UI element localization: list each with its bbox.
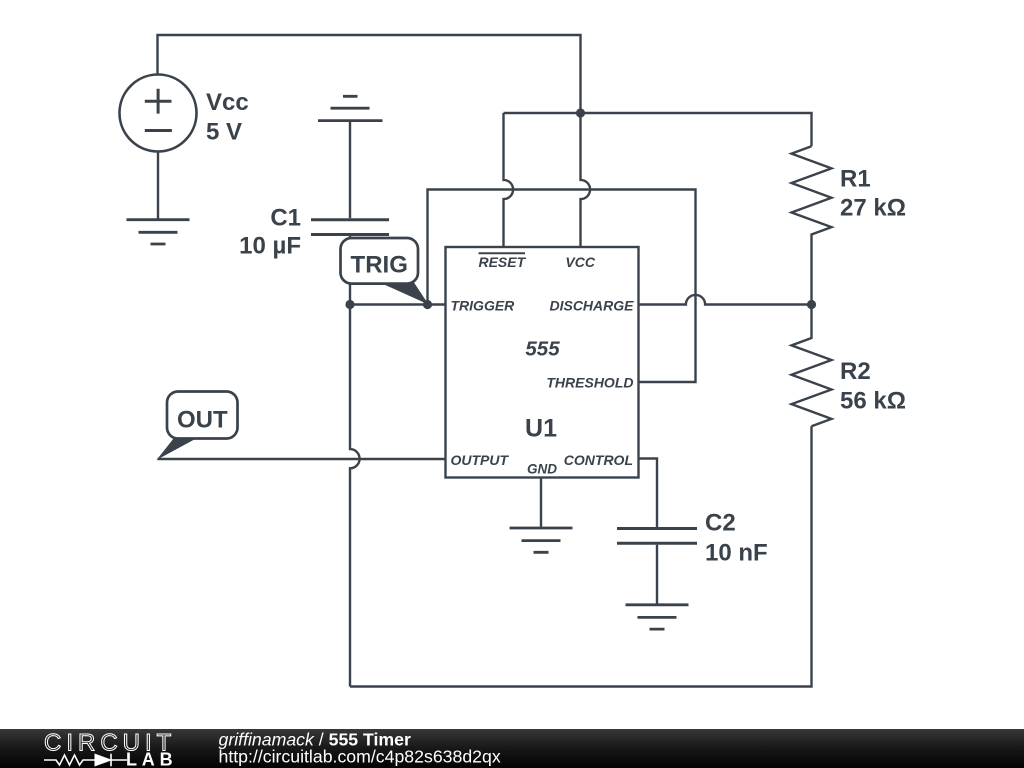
ground under C2: [626, 605, 689, 629]
svg-text:10 µF: 10 µF: [239, 233, 301, 260]
svg-text:C1: C1: [270, 204, 301, 231]
node TRIG left junction: [345, 300, 354, 309]
resistor R2 zigzag: [792, 305, 832, 427]
ground under voltage source: [127, 220, 190, 244]
flag TRIG bubble: [341, 238, 429, 305]
ground under GND pin: [510, 528, 573, 552]
wire Vcc bottom to ground: [157, 152, 159, 220]
wire RESET pin riser (hop over trigger wire): [504, 113, 514, 247]
svg-text:10 nF: 10 nF: [705, 539, 768, 566]
svg-text:27 kΩ: 27 kΩ: [840, 194, 906, 221]
svg-text:GND: GND: [527, 462, 557, 477]
svg-text:OUT: OUT: [177, 406, 228, 433]
resistor R1 zigzag: [792, 146, 832, 304]
node VCC junction: [576, 108, 585, 117]
svg-text:VCC: VCC: [565, 254, 595, 270]
svg-text:OUTPUT: OUTPUT: [451, 452, 510, 468]
wire TRIGGER to THRESHOLD: [428, 190, 696, 383]
wire U1 GND pin to ground: [540, 478, 542, 529]
svg-text:DISCHARGE: DISCHARGE: [549, 298, 634, 314]
svg-text:5 V: 5 V: [206, 118, 242, 145]
svg-text:C2: C2: [705, 509, 736, 536]
wire TRIG node down loop (hop over output wire): [350, 305, 360, 687]
footer logo squiggle resistor and diode: [44, 754, 127, 766]
svg-text:THRESHOLD: THRESHOLD: [546, 375, 633, 391]
svg-text:http://circuitlab.com/c4p82s63: http://circuitlab.com/c4p82s638d2qx: [219, 746, 501, 766]
voltage source V1 Vcc circle: [120, 75, 197, 152]
capacitor C1 plates: [311, 220, 389, 235]
RESET overline: [479, 252, 526, 254]
wire DISCHARGE to R1/R2 junction (hop over threshold wire): [639, 295, 812, 305]
node TRIGGER junction: [423, 300, 432, 309]
capacitor C2 plates: [617, 529, 697, 544]
wire Vcc top to VCC rail: [158, 35, 581, 113]
svg-text:U1: U1: [525, 414, 557, 442]
wire C1 ground to top plate: [349, 121, 351, 219]
voltage source minus sign: [145, 129, 172, 132]
footer bar: [0, 729, 1024, 768]
IC U1 555 box: [446, 247, 639, 478]
flag OUT bubble: [157, 392, 238, 461]
svg-text:CONTROL: CONTROL: [564, 452, 633, 468]
wire C1 bottom plate to TRIG node: [349, 236, 351, 305]
wire C2 bottom plate to ground: [656, 545, 658, 605]
svg-text:TRIGGER: TRIGGER: [451, 298, 516, 314]
svg-text:TRIG: TRIG: [351, 252, 408, 279]
voltage source plus sign: [145, 89, 172, 114]
capacitor C1 inverted ground: [318, 96, 383, 120]
svg-text:56 kΩ: 56 kΩ: [840, 388, 906, 415]
svg-text:RESET: RESET: [478, 254, 526, 270]
svg-text:R2: R2: [840, 358, 871, 385]
node DISCHARGE junction: [807, 300, 816, 309]
wire VCC rail down to U1 VCC pin (hop over trigger wire): [581, 113, 591, 247]
wire U1 CONTROL pin to C2: [639, 459, 658, 528]
svg-text:Vcc: Vcc: [206, 89, 249, 116]
wire bottom return to R2: [350, 426, 812, 686]
wire VCC rail to R1 top: [504, 113, 812, 146]
svg-text:LAB: LAB: [126, 750, 177, 768]
svg-text:R1: R1: [840, 165, 871, 192]
svg-text:555: 555: [525, 337, 560, 360]
wire TRIG node to U1 TRIGGER pin: [350, 303, 446, 305]
wire U1 OUTPUT pin: [158, 458, 446, 460]
